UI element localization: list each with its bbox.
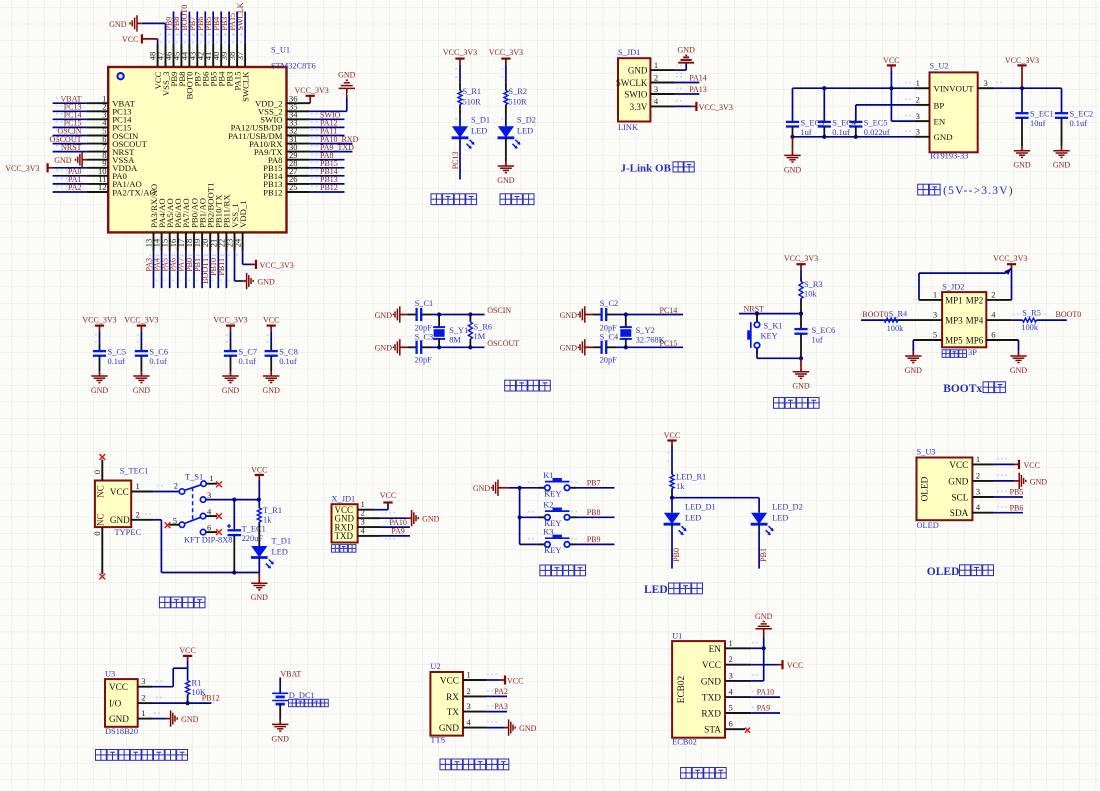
power VCC_3V3 (VDDA pin 9)	[5, 163, 86, 173]
pin 47 VSS_3 (top)	[156, 43, 171, 96]
pin 2 SWCLK	[616, 72, 675, 88]
svg-text:25: 25	[289, 182, 298, 192]
capacitor S_C6 0.1uf	[135, 344, 168, 371]
net label SWIO	[311, 111, 341, 120]
svg-text:GND: GND	[905, 366, 923, 375]
ground (reset)	[792, 358, 810, 390]
power VCC_3V3 (JD1 pin 4)	[675, 100, 733, 112]
svg-text:VCC_3V3: VCC_3V3	[124, 316, 158, 325]
svg-text:PA3: PA3	[494, 702, 508, 711]
svg-text:12: 12	[98, 182, 107, 192]
svg-text:0: 0	[93, 531, 102, 535]
svg-text:S_Y2: S_Y2	[636, 326, 655, 335]
wire	[505, 138, 507, 162]
ground (battery)	[272, 720, 290, 744]
svg-text:U2: U2	[430, 662, 440, 671]
power VCC_3V3 (VOUT)	[1005, 56, 1039, 88]
capacitor S_C4 20pF	[593, 333, 619, 365]
power VCC (DS18B20)	[179, 646, 195, 661]
pin 3	[905, 111, 930, 121]
ground (VSS_1 pin 23)	[242, 273, 275, 289]
net label PC15	[56, 119, 82, 128]
capacitor S_C1 20pF	[408, 299, 433, 332]
svg-text:EN: EN	[709, 645, 722, 655]
svg-text:VBAT: VBAT	[280, 669, 301, 678]
pin 4 GND	[439, 717, 486, 734]
svg-text:OSCOUT: OSCOUT	[487, 339, 519, 348]
wire	[180, 12, 182, 44]
svg-text:S_R6: S_R6	[474, 323, 493, 332]
net label PB3	[220, 17, 229, 36]
wire	[431, 346, 485, 348]
svg-text:U3: U3	[105, 669, 115, 678]
svg-text:PA2: PA2	[494, 687, 508, 696]
svg-text:PA13: PA13	[689, 85, 707, 94]
svg-text:VCC_3V3: VCC_3V3	[295, 86, 329, 95]
svg-text:ECB02: ECB02	[677, 675, 687, 703]
svg-text:GND: GND	[338, 71, 356, 80]
wire	[671, 524, 673, 568]
svg-text:2: 2	[141, 693, 145, 703]
wire	[861, 319, 884, 321]
svg-text:GND: GND	[519, 724, 537, 733]
capacitor S_C3 20pF	[408, 333, 433, 365]
ground (ECB02)	[755, 612, 773, 637]
svg-text:0.1uf: 0.1uf	[832, 128, 850, 137]
svg-text:U1: U1	[672, 632, 682, 641]
svg-text:T_EC1: T_EC1	[242, 525, 266, 534]
svg-text:0.1uf: 0.1uf	[239, 357, 257, 366]
svg-text:GND: GND	[251, 593, 269, 602]
svg-text:PC14: PC14	[660, 306, 678, 315]
wire	[220, 12, 222, 44]
wire	[206, 499, 259, 501]
svg-text:KEY: KEY	[544, 546, 561, 555]
wire	[918, 273, 920, 300]
pin 4 PC15 (left)	[87, 118, 132, 133]
power VCC_3V3 (BOOTx)	[993, 254, 1027, 268]
title 蓝牙模块	[681, 768, 727, 779]
pin 40 PB4 (top)	[211, 43, 226, 86]
svg-text:GND: GND	[1053, 161, 1071, 170]
ground (VSSA pin 8)	[54, 152, 86, 168]
pin 4 TXD	[702, 687, 751, 704]
resistor S_R3 10k	[799, 277, 823, 314]
pin 4 TXD	[335, 526, 381, 541]
svg-text:VCC: VCC	[179, 646, 195, 655]
svg-text:RT9193-33: RT9193-33	[930, 151, 968, 160]
svg-text:PA14: PA14	[689, 73, 707, 82]
net label PB13	[311, 175, 338, 184]
pin 1 (left)	[919, 289, 942, 300]
no-connect X	[216, 529, 222, 535]
pin 1 VCC	[335, 500, 375, 515]
pin 15 PA5/AO (bottom)	[160, 198, 175, 251]
svg-text:SWCLK: SWCLK	[236, 2, 245, 30]
svg-text:S_Y1: S_Y1	[449, 326, 468, 335]
svg-text:1k: 1k	[676, 482, 685, 491]
wire	[228, 12, 230, 44]
pin 33 PA12/USB/DP (right)	[231, 118, 310, 133]
wire	[310, 135, 345, 137]
resistor S_R5 100k	[1012, 308, 1046, 332]
svg-text:1M: 1M	[474, 332, 486, 341]
svg-text:PB0: PB0	[672, 548, 681, 562]
power VCC (OLED)	[994, 458, 1040, 470]
wire	[217, 251, 219, 288]
wire	[225, 251, 227, 288]
wire	[153, 519, 161, 521]
pin 5 RXD	[701, 703, 751, 720]
title LED灯电路	[644, 583, 703, 596]
wire	[993, 87, 1062, 89]
net label PB11	[217, 255, 226, 276]
svg-text:VCC: VCC	[122, 35, 138, 44]
wire	[675, 69, 687, 71]
svg-text:PB9: PB9	[587, 535, 601, 544]
svg-text:PB1: PB1	[759, 548, 768, 562]
resistor S_R1 510R	[458, 83, 481, 116]
ground (S_C2)	[560, 306, 593, 322]
svg-text:T_D1: T_D1	[272, 537, 292, 546]
svg-text:GND: GND	[422, 515, 440, 524]
svg-text:VCC_3V3: VCC_3V3	[784, 254, 818, 263]
pin 1 VBAT (left)	[87, 93, 136, 108]
svg-text:VCC: VCC	[787, 661, 803, 670]
svg-text:D_DC1: D_DC1	[289, 691, 315, 700]
svg-text:VCC: VCC	[1024, 461, 1040, 470]
pin 1 GND	[109, 708, 152, 724]
svg-text:J-Link OB: J-Link OB	[621, 162, 672, 174]
wire	[671, 446, 673, 472]
wire	[616, 314, 683, 316]
svg-text:3: 3	[207, 490, 211, 500]
wire	[756, 355, 758, 359]
net label PB0	[185, 255, 194, 272]
svg-text:S_U3: S_U3	[917, 447, 936, 456]
svg-text:6: 6	[207, 523, 211, 533]
net label PB10	[209, 255, 218, 276]
wire	[380, 517, 407, 519]
LED T_D1	[251, 537, 291, 569]
pin 46 PB9 (top)	[164, 43, 179, 86]
svg-text:TTS: TTS	[430, 736, 445, 745]
svg-text:VCC: VCC	[440, 677, 459, 687]
wire	[577, 487, 615, 489]
pin 27 PB14 (right)	[263, 166, 310, 181]
wire	[505, 116, 507, 126]
net label PB4	[212, 17, 221, 36]
pin 1 VCC	[949, 454, 994, 471]
net label PA4	[152, 255, 161, 272]
ground	[133, 371, 151, 395]
svg-text:4: 4	[976, 502, 981, 512]
net label PA10_RXD	[311, 135, 359, 144]
svg-text:S_C5: S_C5	[108, 348, 127, 357]
svg-text:10uf: 10uf	[1030, 119, 1046, 128]
wire	[53, 191, 87, 193]
svg-text:GND: GND	[1010, 366, 1028, 375]
svg-text:OLED: OLED	[921, 476, 931, 501]
wire	[173, 12, 175, 44]
pin 24 VDD_1 (bottom)	[233, 200, 248, 251]
pin 2 GND	[948, 470, 994, 487]
pin 3 VCC	[109, 676, 152, 692]
svg-text:5: 5	[729, 703, 733, 713]
sensor U3 DS18B20	[105, 669, 138, 736]
net label PA2	[56, 183, 82, 192]
wire	[169, 251, 171, 288]
wire	[459, 65, 461, 83]
svg-text:5: 5	[933, 330, 937, 340]
net label PB1	[193, 255, 202, 272]
svg-text:37: 37	[235, 52, 245, 61]
pin 28 PB15 (right)	[263, 158, 310, 173]
svg-text:BOOT0: BOOT0	[1056, 310, 1082, 319]
wire	[310, 191, 345, 193]
connector JD1 J-Link	[618, 48, 650, 132]
svg-text:ECB02: ECB02	[672, 738, 697, 747]
svg-text:TX: TX	[447, 708, 460, 718]
svg-text:VCC_3V3: VCC_3V3	[82, 316, 116, 325]
svg-text:VCC_3V3: VCC_3V3	[5, 164, 39, 173]
pin 1 VCC	[131, 481, 153, 492]
svg-text:S_EC5: S_EC5	[864, 118, 888, 127]
svg-text:1: 1	[916, 78, 920, 88]
svg-text:VDD_1: VDD_1	[238, 200, 248, 228]
capacitor S_EC2 0.1uf	[1055, 88, 1093, 146]
pin 1	[905, 78, 930, 88]
net label PA15	[228, 13, 237, 36]
svg-text:K2: K2	[543, 501, 553, 510]
pin 12 PA2/TX/AO (left)	[87, 182, 156, 197]
svg-text:SWIO: SWIO	[624, 89, 647, 99]
pin 48 VCC (top)	[148, 43, 163, 89]
net label PA7	[177, 255, 186, 272]
pin 1 VCC	[440, 670, 486, 687]
net label BOOT0	[180, 5, 189, 36]
pin 20 PB2/BOOT1 (bottom)	[200, 183, 215, 252]
ground (VSS_2 pin 35)	[338, 71, 356, 98]
title 电源电路	[159, 597, 205, 608]
svg-text:OSCIN: OSCIN	[487, 306, 511, 315]
svg-text:1: 1	[467, 670, 471, 680]
svg-text:S_R1: S_R1	[463, 87, 482, 96]
pin 5 stub	[169, 524, 179, 526]
capacitor S_EC3 1uf	[786, 88, 824, 137]
svg-text:GND: GND	[560, 344, 578, 353]
module U2 TTS	[430, 662, 463, 745]
title J-Link OB接口	[621, 162, 695, 175]
junction	[822, 135, 826, 139]
svg-text:3: 3	[916, 127, 920, 137]
wire	[177, 251, 179, 288]
resistor S_R4 100k	[860, 309, 908, 333]
net label OSCOUT	[49, 135, 81, 144]
net label PB9	[164, 17, 173, 36]
svg-text:VCC_3V3: VCC_3V3	[699, 103, 733, 112]
svg-text:PB6: PB6	[1010, 503, 1024, 512]
svg-text:0: 0	[93, 470, 102, 474]
power VCC_3V3	[124, 316, 158, 332]
MCU U1 STM32C8T6	[108, 46, 315, 233]
wire	[800, 269, 802, 277]
wire	[486, 711, 507, 713]
svg-text:32.768K: 32.768K	[636, 336, 665, 345]
wire	[1037, 319, 1067, 321]
svg-text:GND: GND	[54, 156, 72, 165]
svg-text:GND: GND	[560, 311, 578, 320]
wire	[204, 12, 206, 44]
svg-text:S_C2: S_C2	[600, 299, 619, 308]
wire	[508, 487, 519, 489]
ground (VSS_3 pin 47)	[109, 15, 142, 31]
wire	[140, 332, 142, 344]
title 复位电路	[774, 398, 820, 409]
junction	[670, 496, 674, 500]
junction	[437, 312, 441, 316]
svg-text:GND: GND	[784, 165, 802, 174]
resistor S_R2 510R	[504, 83, 527, 116]
net label PB7	[188, 17, 197, 36]
svg-text:S_C7: S_C7	[239, 348, 258, 357]
capacitor S_C7 0.1uf	[224, 344, 257, 371]
wire	[380, 526, 410, 528]
svg-text:GND: GND	[263, 386, 281, 395]
power VCC (ECB02)	[751, 660, 803, 670]
ground	[1053, 146, 1071, 170]
svg-text:PB12: PB12	[320, 183, 338, 192]
no-connect X	[216, 513, 222, 519]
svg-text:S_C3: S_C3	[415, 333, 434, 342]
wire	[196, 12, 198, 44]
svg-text:2: 2	[467, 686, 471, 696]
wire	[891, 120, 914, 122]
svg-text:6: 6	[729, 719, 733, 729]
power VCC	[883, 56, 899, 70]
wire	[672, 497, 759, 499]
svg-text:GND: GND	[222, 386, 240, 395]
svg-text:RXD: RXD	[701, 710, 721, 720]
svg-text:VCC: VCC	[380, 491, 396, 500]
pin 17 PA7/AO (bottom)	[176, 198, 191, 251]
svg-text:MP3: MP3	[945, 316, 963, 326]
svg-text:S_JD2: S_JD2	[942, 283, 964, 292]
junction	[889, 86, 893, 90]
svg-text:LED_D1: LED_D1	[685, 503, 716, 512]
pin 13 PA3/RX/AO (bottom)	[144, 184, 159, 252]
svg-text:KFT DIP-8X8: KFT DIP-8X8	[184, 536, 232, 545]
pin 30 PA9/TX (right)	[254, 142, 310, 157]
wire	[242, 251, 244, 264]
svg-text:3: 3	[141, 676, 145, 686]
wire	[577, 543, 615, 545]
wire	[310, 151, 353, 153]
wire	[185, 251, 187, 288]
svg-text:S_K1: S_K1	[764, 322, 783, 331]
svg-text:S_U1: S_U1	[271, 46, 290, 55]
net label PA8	[311, 151, 334, 160]
net label NRST	[56, 143, 82, 152]
svg-text:2: 2	[991, 289, 995, 299]
wire	[279, 704, 281, 720]
svg-text:VCC_3V3: VCC_3V3	[260, 261, 294, 270]
svg-text:3: 3	[984, 78, 988, 88]
pin 1 GND	[628, 60, 675, 76]
svg-text:S_C4: S_C4	[600, 333, 619, 342]
title 语音输出模块	[440, 759, 509, 770]
ground (S_C1)	[375, 306, 408, 322]
svg-text:1uf: 1uf	[801, 128, 812, 137]
svg-text:1: 1	[933, 289, 937, 299]
pin 29 PA8 (right)	[268, 150, 310, 165]
svg-text:100k: 100k	[887, 324, 905, 333]
svg-text:T_R1: T_R1	[263, 506, 282, 515]
svg-text:GND: GND	[375, 311, 393, 320]
pin 2 VCC	[702, 654, 751, 671]
pin 6 OSCOUT (left)	[87, 134, 148, 149]
pin 7 NRST (left)	[87, 142, 135, 157]
svg-text:KEY: KEY	[544, 490, 561, 499]
power VCC_3V3 (S_R2 lamp)	[489, 48, 523, 64]
pin 44 BOOT0 (top)	[179, 43, 194, 99]
resistor LED_R1 1k	[670, 471, 706, 498]
svg-text:VCC: VCC	[263, 316, 279, 325]
svg-text:K3: K3	[543, 528, 553, 537]
ground (MP6)	[1010, 351, 1028, 375]
pin 31 PA10/RX (right)	[249, 134, 310, 149]
pin 39 PB3 (top)	[219, 43, 234, 86]
svg-text:LED: LED	[272, 548, 288, 557]
junction	[799, 356, 803, 360]
capacitor S_C5 0.1uf	[93, 344, 126, 371]
svg-text:510R: 510R	[463, 98, 482, 107]
svg-text:GND: GND	[133, 386, 151, 395]
svg-text:20pF: 20pF	[600, 355, 618, 364]
wire	[459, 138, 461, 180]
svg-text:MP6: MP6	[966, 335, 984, 345]
power VCC_3V3 (VDD_1 pin 24)	[251, 260, 294, 270]
pin 3 RXD	[335, 518, 381, 533]
wire	[459, 116, 461, 126]
pin 5 OSCIN (left)	[87, 126, 139, 141]
svg-text:S_EC2: S_EC2	[1070, 110, 1094, 119]
svg-text:STA: STA	[704, 726, 721, 736]
pin 5 (left)	[913, 330, 942, 341]
ground (S_C3)	[375, 339, 408, 355]
no-connect X	[216, 481, 222, 487]
regulator U2 RT9193-33	[930, 62, 978, 161]
pin 32 PA11/USB/DM (right)	[228, 126, 310, 141]
svg-text:S_C1: S_C1	[415, 299, 434, 308]
svg-text:0.1uf: 0.1uf	[279, 357, 297, 366]
svg-text:1: 1	[141, 708, 145, 718]
svg-text:NC: NC	[95, 485, 105, 498]
label 下载口	[332, 545, 356, 553]
svg-text:20pF: 20pF	[600, 323, 618, 332]
svg-text:1uf: 1uf	[812, 335, 823, 344]
svg-text:3: 3	[729, 670, 733, 680]
pin 43 PB7 (top)	[187, 43, 202, 86]
pin 34 SWIO (right)	[260, 110, 310, 125]
power VCC (pin 48)	[122, 34, 158, 44]
wire	[153, 251, 155, 288]
svg-text:1: 1	[654, 60, 658, 70]
ground	[91, 371, 109, 395]
svg-text:2: 2	[361, 509, 365, 518]
svg-text:10k: 10k	[804, 290, 817, 299]
wire	[751, 696, 780, 698]
